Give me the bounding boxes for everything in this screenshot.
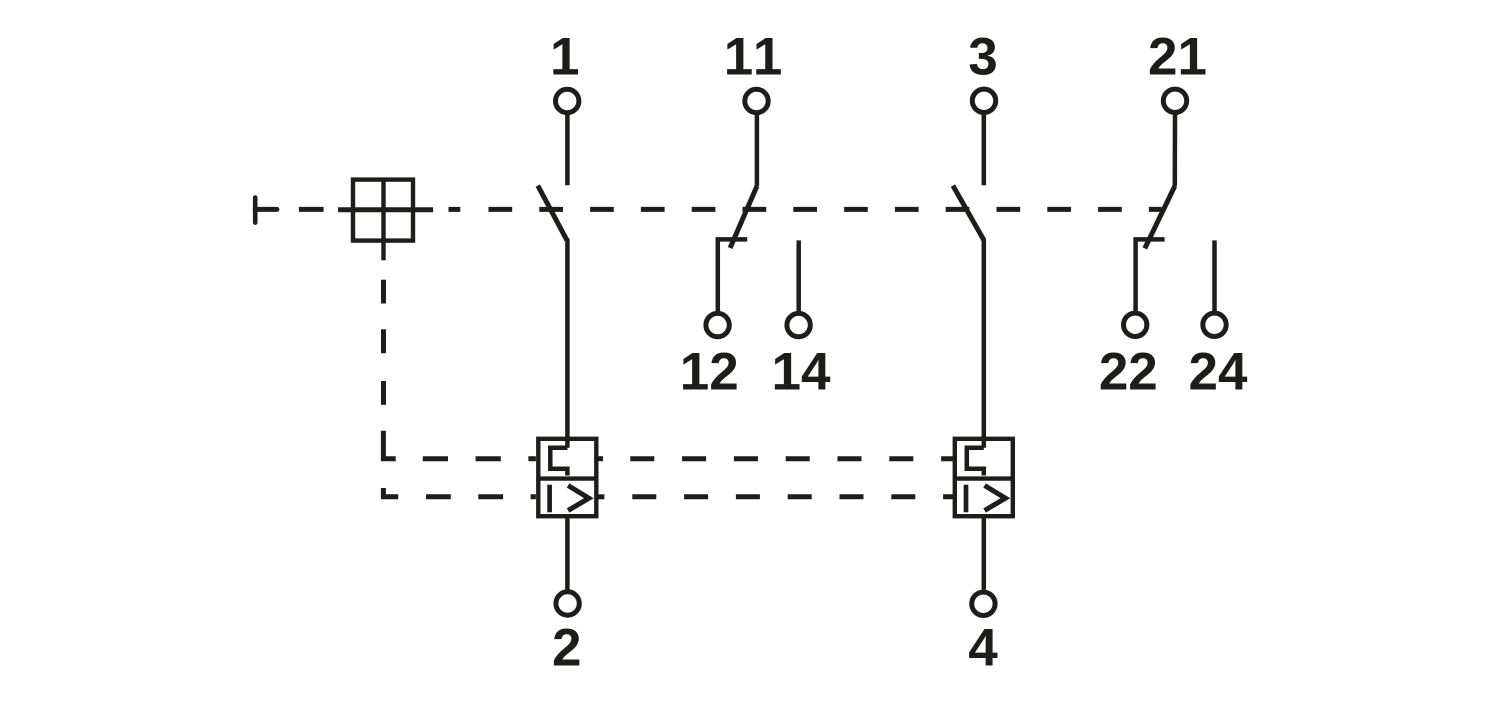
label terminal 24 [1189,343,1248,402]
terminal 21 [1163,89,1186,112]
wire pole1 middle [565,239,570,448]
wire aux 21 [1173,114,1178,186]
svg-text:4: 4 [968,619,998,678]
wire mechanical linkage dashed horizontal main [449,207,1162,212]
main contact pole 3 blade [953,186,984,241]
magnetic overcurrent release I> pole 3 [966,485,1005,513]
wire pole1 upper [565,114,570,185]
fixed contact 12 with wire [718,239,747,311]
label terminal 12 [680,343,739,402]
terminal 12 [706,313,729,336]
terminal 22 [1124,313,1147,336]
terminal 4 [972,592,995,615]
wire mechanical link dash left of actuator [299,207,324,212]
terminal 14 [787,313,810,336]
label terminal 21 [1148,28,1207,87]
svg-text:3: 3 [968,28,997,87]
svg-text:11: 11 [724,28,785,87]
label terminal 14 [772,343,831,402]
wire mechanical linkage dashed vertical from actuator [383,280,398,497]
wire pole3 lower [982,516,987,590]
trip unit box pole 1 [538,439,596,516]
wire pole3 middle [982,239,987,448]
actuator mechanism end stop T [255,198,277,223]
auxiliary changeover contact blade 11 [730,186,757,248]
actuator (manual operating mechanism) square symbol [338,180,433,261]
svg-text:14: 14 [772,343,831,402]
svg-text:1: 1 [550,28,579,87]
svg-text:2: 2 [552,619,581,678]
wire contact 14 [796,240,801,311]
main contact pole 1 blade [538,186,567,241]
wire trip linkage dashed row lower [426,494,953,499]
label terminal 2 [552,619,581,678]
thermal overload release pole 3 [967,448,984,476]
label terminal 4 [968,619,998,678]
svg-text:12: 12 [680,343,739,402]
magnetic overcurrent release I> pole 1 [550,485,589,513]
wire pole1 lower [565,516,570,590]
label terminal 11 [724,28,785,87]
svg-text:22: 22 [1099,343,1158,402]
fixed contact 22 with wire [1136,239,1165,311]
label terminal 3 [968,28,997,87]
trip unit box pole 3 [955,439,1013,516]
terminal 2 [556,592,579,615]
terminal 3 [972,89,995,112]
terminal 24 [1203,313,1226,336]
terminal 11 [745,89,768,112]
wire contact 24 [1212,240,1217,311]
wire trip linkage dashed row upper [423,456,953,461]
wire aux 11 [755,114,760,186]
svg-text:21: 21 [1148,28,1207,87]
terminal 1 [556,89,579,112]
label terminal 1 [550,28,579,87]
svg-text:24: 24 [1189,343,1248,402]
label terminal 22 [1099,343,1158,402]
thermal overload release pole 1 [550,448,567,476]
auxiliary changeover contact blade 21 [1145,186,1175,248]
wire pole3 upper [982,114,987,185]
